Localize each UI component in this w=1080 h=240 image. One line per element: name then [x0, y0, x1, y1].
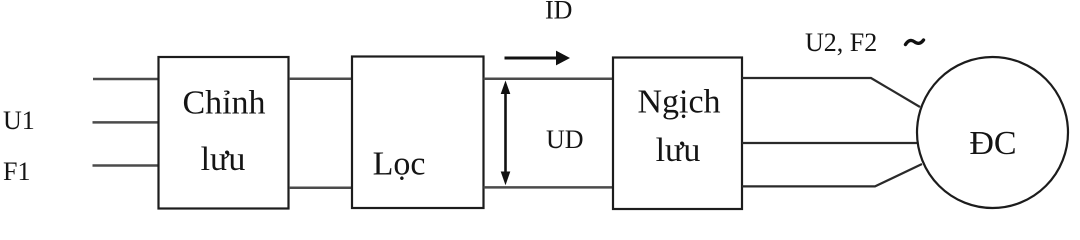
motor circle DC: [917, 57, 1068, 208]
wire input phase 1: [93, 78, 159, 81]
wire bus top filter-inverter: [484, 78, 614, 81]
wire output phase middle: [742, 142, 918, 144]
wire input phase 2: [93, 121, 160, 124]
block rectifier "Chinh luu": [159, 57, 289, 209]
svg-text:Ngịch: Ngịch: [637, 83, 720, 120]
svg-text:Chỉnh: Chỉnh: [182, 84, 265, 121]
wire bus top rectifier-filter: [289, 78, 352, 81]
svg-text:ĐC: ĐC: [969, 125, 1016, 162]
svg-text:U1: U1: [3, 106, 35, 135]
svg-text:F1: F1: [3, 157, 30, 186]
block filter "Loc": [352, 57, 484, 209]
svg-text:U2, F2: U2, F2: [805, 28, 877, 57]
svg-text:ID: ID: [545, 0, 572, 24]
svg-text:lưu: lưu: [656, 132, 701, 169]
symbol AC tilde: [906, 40, 924, 45]
svg-text:lưu: lưu: [201, 141, 246, 178]
wire bus bottom filter-inverter: [484, 186, 614, 189]
arrow ID current: [505, 57, 558, 60]
svg-text:UD: UD: [546, 125, 584, 154]
wire output phase bottom: [742, 164, 922, 186]
block inverter "Ngich luu": [613, 58, 742, 210]
arrow UD voltage (double headed): [504, 92, 507, 173]
wire input phase 3: [93, 164, 160, 167]
svg-text:Lọc: Lọc: [373, 146, 426, 183]
wire bus bottom rectifier-filter: [289, 187, 352, 190]
wire output phase top: [742, 78, 920, 107]
